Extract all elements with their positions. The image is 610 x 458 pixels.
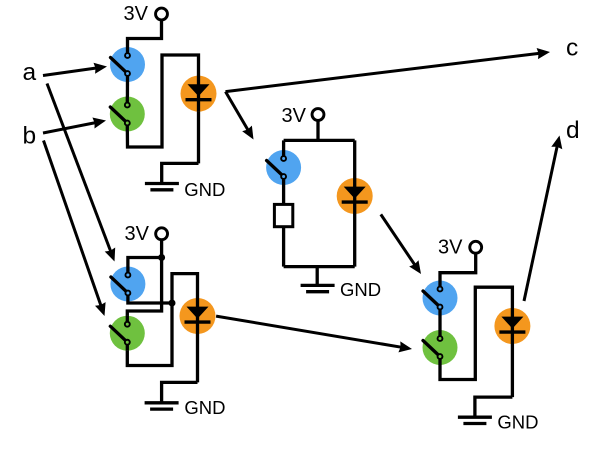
svg-text:GND: GND xyxy=(497,412,538,433)
arrow from LED D3 to switch S4a xyxy=(381,214,421,274)
svg-text:GND: GND xyxy=(184,179,225,200)
wire LED D3 branch (circuit 3) xyxy=(353,140,356,266)
node B junction (circuit 2) xyxy=(169,300,176,307)
node A junction (circuit 2) xyxy=(158,254,165,261)
switch S1a (blue, input a, circuit 1) xyxy=(110,47,145,82)
wire switch S2a to node B (circuit 2) xyxy=(128,293,172,303)
wire switch S2b to node B (circuit 2) xyxy=(127,303,172,366)
switch S1b (green, input b, circuit 1) xyxy=(110,97,145,132)
resistor R1 (circuit 3) xyxy=(274,204,292,226)
svg-text:3V: 3V xyxy=(125,223,150,245)
switch S3 (blue, circuit 3) xyxy=(266,150,301,185)
arrow from LED D1 to circuit 3 xyxy=(226,92,254,140)
wire switch S1a to switch S1b (circuit 1) xyxy=(126,74,129,106)
switch S2b (green, input b, circuit 2) xyxy=(110,316,145,351)
power terminal 3V (circuit 2) xyxy=(125,223,168,245)
LED D1 (circuit 1) xyxy=(181,76,217,112)
svg-text:GND: GND xyxy=(184,397,225,418)
wire top rail (circuit 3) xyxy=(284,139,355,142)
svg-text:c: c xyxy=(566,35,578,62)
ground (circuit 2) xyxy=(145,397,226,418)
arrow from LED D1 to c xyxy=(226,48,551,92)
wire resistor R1 to bottom rail (circuit 3) xyxy=(282,227,285,267)
svg-text:3V: 3V xyxy=(282,105,307,127)
switch S4b (green, circuit 4) xyxy=(423,330,458,365)
wire switch S3 to resistor R1 (circuit 3) xyxy=(282,177,285,205)
switch S2a (blue, input a, circuit 2) xyxy=(110,267,145,302)
wire top rail to switch S3 (circuit 3) xyxy=(282,140,285,158)
wire node A to switch S2a (circuit 2) xyxy=(128,258,162,276)
wire switch S1b to LED D1 loop (circuit 1) xyxy=(127,55,198,163)
wire switch S4b to LED D4 loop (circuit 4) xyxy=(440,287,512,397)
arrow from LED D2 to switch S4b xyxy=(216,316,412,352)
power terminal 3V (circuit 1) xyxy=(124,3,168,25)
arrow from b to switch S1b xyxy=(43,118,106,134)
power terminal 3V (circuit 4) xyxy=(438,237,482,259)
ground (circuit 3) xyxy=(301,279,382,300)
power terminal 3V (circuit 3) xyxy=(282,105,324,127)
arrow from a to switch S2a xyxy=(47,84,115,262)
svg-text:3V: 3V xyxy=(124,3,149,25)
wire 3V supply to top rail (circuit 3) xyxy=(316,120,319,140)
wire bottom rail (circuit 3) xyxy=(284,265,355,268)
wire node B to LED D2 and ground elbow (circuit 2) xyxy=(172,274,198,383)
wire LED D1 to ground (circuit 1) xyxy=(162,163,199,183)
LED D2 (circuit 2) xyxy=(180,298,216,334)
svg-text:3V: 3V xyxy=(438,237,463,259)
svg-text:b: b xyxy=(23,123,37,150)
wire ground stem (circuit 3) xyxy=(316,267,319,286)
wire 3V supply to switch S1a (circuit 1) xyxy=(128,20,162,55)
LED D3 (circuit 3) xyxy=(337,178,373,214)
wire switch S4a to switch S4b (circuit 4) xyxy=(438,307,441,338)
svg-text:GND: GND xyxy=(340,279,381,300)
ground (circuit 4) xyxy=(458,412,539,433)
switch S4a (blue, circuit 4) xyxy=(423,281,458,316)
wire LED D2 to ground (circuit 2) xyxy=(162,382,198,402)
wire 3V supply to node A (circuit 2) xyxy=(160,239,163,258)
svg-text:d: d xyxy=(566,117,580,144)
wire 3V supply to switch S4a (circuit 4) xyxy=(440,253,476,289)
arrow from a to switch S1a xyxy=(43,63,107,76)
wire LED D4 to ground (circuit 4) xyxy=(475,397,513,417)
LED D4 (circuit 4) xyxy=(494,308,530,344)
ground (circuit 1) xyxy=(145,179,226,200)
wire node A to switch S2b (circuit 2) xyxy=(127,258,161,325)
svg-text:a: a xyxy=(23,59,37,86)
arrow from LED D4 to d xyxy=(524,136,562,302)
arrow from b to switch S2b xyxy=(44,141,106,317)
